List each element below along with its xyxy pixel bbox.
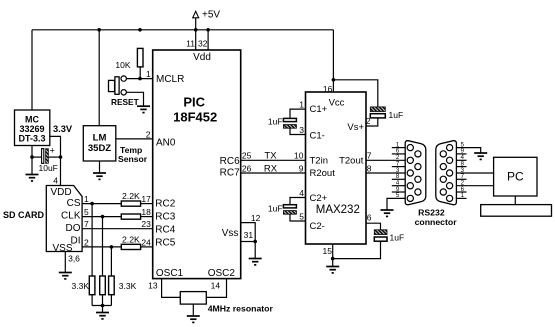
block PC base — [481, 205, 552, 217]
node DI pull junction — [110, 245, 114, 249]
wire OSC1 — [162, 279, 181, 298]
wire DB9R stub pin4 — [456, 159, 466, 161]
svg-text:C1-: C1- — [310, 130, 325, 141]
svg-text:1: 1 — [299, 100, 304, 110]
svg-text:16: 16 — [323, 84, 333, 94]
resistor R 3.3K (CS) — [89, 276, 95, 295]
wire CS pull-down — [91, 204, 93, 276]
svg-text:2: 2 — [84, 237, 89, 247]
svg-text:LM: LM — [93, 132, 107, 143]
svg-text:3.3K: 3.3K — [72, 281, 90, 291]
svg-text:10: 10 — [294, 151, 304, 161]
svg-text:1uF: 1uF — [268, 204, 283, 214]
node rail-10K junction — [138, 28, 142, 32]
svg-text:10K: 10K — [115, 60, 130, 70]
node MCLR junction — [138, 77, 142, 81]
capacitor C2 1uF — [268, 204, 297, 215]
voltage regulator MC33269DT-3.3 — [15, 110, 50, 146]
wire CLK pull-down — [102, 217, 104, 276]
wire DB9L stub pin4 — [392, 185, 405, 187]
wire regulator ground leg — [31, 146, 33, 175]
svg-text:Vss: Vss — [222, 228, 239, 239]
svg-text:MAX232: MAX232 — [316, 204, 360, 216]
wire to 10uF — [32, 156, 41, 158]
wire DB9R pin5 to ground — [456, 148, 480, 153]
ground PIC Vss — [249, 259, 262, 265]
wire DB9R pin2 to PC — [456, 185, 493, 187]
ground MAX232 — [326, 267, 339, 273]
wire LM35 ground leg — [99, 161, 101, 173]
wire regulator output 3.3V — [50, 136, 61, 185]
wire Vss pin 12 — [241, 223, 256, 242]
svg-text:OSC1: OSC1 — [156, 268, 184, 279]
svg-text:CS: CS — [67, 198, 81, 209]
svg-text:C1+: C1+ — [310, 104, 328, 115]
wire DB9R pin3 to PC — [456, 172, 493, 174]
wire DB9R stub pin7 — [456, 178, 466, 180]
wire DB9R stub pin6 — [456, 191, 466, 193]
svg-text:C2-: C2- — [310, 221, 325, 232]
crystal 4MHz resonator — [180, 292, 206, 305]
wire SD DO row — [82, 228, 153, 230]
svg-text:33269: 33269 — [19, 124, 44, 134]
svg-text:RC4: RC4 — [155, 225, 175, 236]
resistor R 2.2K (CLK) — [121, 214, 140, 219]
ground DB9 left — [381, 210, 394, 216]
wire pin4 C2+ — [290, 198, 306, 205]
resistor R 3.3K (DI) — [109, 276, 115, 295]
ground DB9 right — [474, 153, 487, 159]
wire DB9R stub pin9 — [456, 153, 466, 155]
svg-text:8: 8 — [367, 163, 372, 173]
svg-text:24: 24 — [141, 237, 151, 247]
svg-text:14: 14 — [211, 280, 221, 290]
capacitor C3 1uF (Vs+) — [370, 107, 403, 120]
wire SD CLK row — [82, 216, 122, 218]
wire TX row — [241, 159, 306, 161]
wire rail to LM35 — [98, 30, 100, 126]
svg-text:SD CARD: SD CARD — [3, 210, 45, 220]
svg-text:RC7: RC7 — [220, 167, 240, 178]
wire to ground — [102, 306, 104, 313]
wire DB9L pin5 to ground — [387, 198, 405, 210]
svg-text:4MHz resonator: 4MHz resonator — [208, 303, 274, 313]
wire pin6 to capacitor — [366, 223, 381, 230]
svg-text:23: 23 — [141, 219, 151, 229]
svg-text:32: 32 — [198, 39, 208, 49]
svg-text:31: 31 — [244, 230, 254, 240]
wire DB9R stub pin1 — [456, 197, 466, 199]
wire pull-down join — [91, 295, 93, 306]
svg-text:connector: connector — [415, 217, 458, 227]
capacitor C4 1uF (V-) — [374, 230, 404, 243]
svg-text:18F452: 18F452 — [173, 109, 217, 124]
svg-text:+5V: +5V — [202, 9, 220, 20]
wire DB9L stub pin1 — [392, 147, 405, 149]
node 3.3V junction — [59, 155, 63, 159]
svg-text:3: 3 — [299, 125, 304, 135]
svg-text:Vcc: Vcc — [329, 97, 345, 108]
node rail pin11 junction — [194, 28, 198, 32]
svg-text:3,6: 3,6 — [68, 254, 80, 264]
svg-text:1uF: 1uF — [268, 117, 283, 127]
svg-text:RC6: RC6 — [220, 156, 240, 167]
svg-text:1uF: 1uF — [390, 233, 405, 243]
wire R2in pin8 to DB9 — [366, 172, 405, 174]
svg-text:T2out: T2out — [339, 156, 364, 167]
svg-text:12: 12 — [251, 213, 261, 223]
connector DB9 right (female) — [436, 141, 457, 205]
svg-text:1uF: 1uF — [389, 110, 404, 120]
wire PC stand — [514, 196, 516, 205]
svg-text:13: 13 — [148, 280, 158, 290]
node CLK pull junction — [101, 215, 105, 219]
node regulator gnd junction — [30, 155, 34, 159]
svg-text:2.2K: 2.2K — [122, 235, 140, 245]
svg-text:6: 6 — [367, 213, 372, 223]
wire DB9L stub pin9 — [392, 191, 405, 193]
svg-text:2: 2 — [366, 116, 371, 126]
wire T2out pin7 to DB9 — [366, 159, 405, 161]
svg-text:2.2K: 2.2K — [122, 191, 140, 201]
connector SD CARD — [46, 186, 82, 255]
wire SD CS row — [82, 203, 122, 205]
svg-text:RC2: RC2 — [155, 199, 175, 210]
svg-text:15: 15 — [323, 246, 333, 256]
svg-text:26: 26 — [242, 163, 252, 173]
svg-text:7: 7 — [367, 151, 372, 161]
svg-text:RS232: RS232 — [418, 208, 445, 218]
svg-text:RC5: RC5 — [155, 238, 175, 249]
node Vss junction — [253, 240, 257, 244]
svg-text:+: + — [50, 145, 55, 155]
op-amp U1 PIC 18F452 microcontroller — [153, 50, 241, 279]
wire 10K to MCLR — [139, 67, 141, 79]
wire pin3 C1- — [290, 128, 306, 134]
svg-text:5: 5 — [299, 212, 304, 222]
svg-text:35DZ: 35DZ — [88, 143, 111, 154]
resistor R 2.2K (CS) — [121, 201, 140, 206]
wire Vs+ pin2 — [366, 118, 378, 126]
svg-text:TX: TX — [264, 151, 277, 162]
svg-text:1: 1 — [146, 69, 151, 79]
wire resonator to ground — [192, 304, 194, 316]
node Vcc branch junction — [332, 78, 336, 82]
wire DB9L stub pin6 — [392, 153, 405, 155]
wire pin 32 Vdd — [207, 30, 209, 50]
capacitor C 10uF — [39, 145, 58, 173]
svg-text:18: 18 — [141, 207, 151, 217]
ground pull-downs — [96, 313, 109, 319]
wire DI pull-down — [110, 247, 112, 276]
svg-text:MC: MC — [25, 114, 39, 124]
svg-text:C2+: C2+ — [310, 193, 328, 204]
svg-text:Vs+: Vs+ — [347, 122, 364, 133]
svg-text:CLK: CLK — [61, 211, 81, 222]
node pull-down junction — [101, 304, 105, 308]
svg-text:R2out: R2out — [310, 168, 336, 179]
wire branch to Vs+ capacitor — [333, 80, 377, 107]
svg-text:OSC2: OSC2 — [208, 268, 236, 279]
svg-text:RC3: RC3 — [155, 212, 175, 223]
capacitor C1 1uF — [268, 117, 297, 129]
svg-text:10uF: 10uF — [39, 163, 58, 173]
svg-text:PC: PC — [507, 170, 524, 184]
pushbutton RESET — [109, 76, 139, 107]
wire cap to pin15 net — [333, 241, 381, 258]
node rail pin32 junction — [206, 28, 210, 32]
node CS pull junction — [90, 202, 94, 206]
svg-text:9: 9 — [299, 163, 304, 173]
node pin15 junction — [331, 257, 335, 261]
ground SD VSS — [59, 273, 72, 279]
wire SD DI row — [82, 246, 122, 248]
svg-text:Sensor: Sensor — [118, 154, 148, 164]
svg-text:11: 11 — [186, 39, 195, 49]
svg-text:PIC: PIC — [183, 94, 205, 109]
svg-text:4: 4 — [53, 175, 58, 185]
wire pin 11 Vdd — [195, 30, 197, 50]
ground resonator — [187, 316, 200, 322]
resistor R 10K — [115, 48, 143, 70]
svg-text:2: 2 — [146, 129, 151, 139]
svg-text:RX: RX — [264, 163, 278, 174]
wire pin15 ground — [332, 244, 334, 267]
wire pin5 C2- — [290, 214, 306, 221]
svg-text:AN0: AN0 — [156, 137, 176, 148]
resistor R 2.2K (DI) — [121, 244, 140, 249]
svg-text:RESET: RESET — [111, 97, 139, 107]
node rail-LM35 junction — [97, 28, 101, 32]
wire LM35 out to AN0 — [116, 138, 153, 140]
svg-text:MCLR: MCLR — [156, 74, 184, 85]
svg-text:7: 7 — [84, 219, 89, 229]
connector DB9 left (male) — [405, 141, 426, 205]
svg-text:DO: DO — [66, 223, 81, 234]
wire Vss to ground — [254, 242, 256, 259]
svg-text:1: 1 — [84, 194, 89, 204]
svg-text:DT-3.3: DT-3.3 — [18, 133, 45, 143]
wire DB9L stub pin7 — [392, 166, 405, 168]
wire reset to ground — [126, 92, 143, 106]
svg-text:Vdd: Vdd — [193, 52, 211, 63]
resistor R 3.3K (CLK) — [100, 276, 106, 295]
wire rail to regulator — [31, 30, 33, 110]
svg-text:4: 4 — [299, 188, 304, 198]
op-amp U2 MAX232 level shifter — [306, 92, 367, 244]
wire DB9R stub pin8 — [456, 166, 466, 168]
svg-text:17: 17 — [141, 194, 151, 204]
ground regulator — [26, 175, 39, 181]
svg-text:VSS: VSS — [53, 243, 73, 254]
wire MCLR — [126, 78, 152, 80]
svg-text:25: 25 — [242, 151, 252, 161]
ground LM35 — [93, 173, 106, 179]
svg-text:3.3K: 3.3K — [119, 281, 137, 291]
temp sensor LM35DZ — [83, 126, 116, 161]
wire DB9L stub pin8 — [392, 178, 405, 180]
wire OSC2 — [206, 279, 226, 298]
wire 10uF to 3.3V line — [49, 156, 61, 158]
wire +5V top rail — [32, 29, 333, 31]
svg-text:5: 5 — [84, 207, 89, 217]
wire rail down to MAX232 Vcc — [332, 30, 334, 92]
power symbol +5V — [193, 9, 221, 30]
ground reset — [137, 106, 150, 112]
svg-text:T2in: T2in — [310, 156, 328, 167]
wire Vss pin 31 — [241, 241, 256, 243]
wire SD VSS leg — [64, 252, 66, 273]
wire pin1 C1+ — [290, 109, 306, 118]
svg-text:3.3V: 3.3V — [53, 124, 73, 134]
svg-text:VDD: VDD — [51, 187, 72, 198]
block PC — [494, 157, 537, 196]
wire RX row — [241, 172, 306, 174]
